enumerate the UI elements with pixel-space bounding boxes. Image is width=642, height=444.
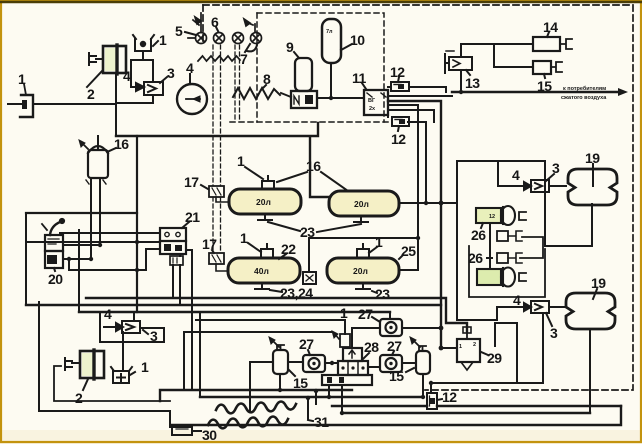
- reservoir 9 (condensation): [291, 58, 317, 108]
- risers to bottom buses: [186, 250, 200, 397]
- label 17 lower: [212, 250, 214, 253]
- svg-text:22: 22: [281, 241, 296, 257]
- link between accumulators: [489, 223, 491, 269]
- parking brake valve 28: [322, 348, 372, 385]
- wire reservoir 10 down / block 9 to valve 11: [317, 63, 364, 98]
- label 8: [261, 85, 266, 90]
- wire loop right of 29: [431, 323, 517, 393]
- svg-text:20л: 20л: [256, 197, 271, 207]
- label 1 (bottom unloader): [130, 372, 135, 375]
- air reservoir 20l (parking circuit): [327, 258, 399, 283]
- bottom bus y390: [160, 390, 352, 401]
- label 3 (top valve): [160, 77, 167, 83]
- accelerating valve 29: [457, 327, 480, 370]
- energy accumulator 26 (upper): [476, 206, 526, 225]
- label 2 (bottom): [83, 379, 88, 390]
- flexible hose 31 (upper): [216, 402, 296, 414]
- label 16 with leaders to both reservoirs: [277, 172, 348, 191]
- dashed lamp wires pair B: [235, 45, 240, 120]
- wire valve 3 lower drop: [431, 313, 543, 383]
- svg-text:2х: 2х: [369, 106, 376, 112]
- label 7: [245, 44, 257, 52]
- wires valve 3 upper: [498, 161, 566, 186]
- svg-text:4: 4: [512, 167, 520, 183]
- wire trunk into 29: [441, 347, 457, 349]
- svg-text:1: 1: [340, 305, 348, 321]
- svg-text:3: 3: [552, 160, 560, 176]
- supply line from dryer trunk to rear reservoir: [116, 123, 329, 197]
- wire 13 down to main air line: [460, 70, 462, 92]
- wires 27c to 28 and 15R: [368, 363, 416, 367]
- svg-text:16: 16: [306, 158, 321, 174]
- label 11: [362, 83, 366, 89]
- svg-text:1: 1: [240, 230, 248, 246]
- dashed lamp wires pair A: [213, 45, 221, 253]
- wire 13 up to 14/15: [461, 44, 533, 67]
- svg-text:25: 25: [401, 243, 416, 259]
- label 12 lower: [398, 126, 399, 131]
- air dryer 16: [79, 140, 108, 184]
- svg-text:к потребителям: к потребителям: [563, 85, 606, 92]
- wire feed to lower limit valve: [457, 307, 506, 320]
- svg-text:30: 30: [202, 427, 217, 443]
- valve 28 bottom ports: [329, 385, 342, 413]
- svg-text:1: 1: [459, 344, 462, 350]
- svg-text:6: 6: [211, 14, 219, 30]
- brake chamber 15 (right): [410, 337, 430, 374]
- wire valve3b feed: [133, 312, 135, 319]
- heater squiggle under lamps: [198, 56, 240, 61]
- wire bus y320 to hand valve feed: [196, 320, 345, 334]
- brake chamber 15 (left): [269, 337, 288, 374]
- long bus y305: [26, 304, 441, 306]
- quick release valve 27 b (upper right): [380, 319, 402, 336]
- label 21: [182, 222, 189, 228]
- lower 26 enclosure: [469, 246, 545, 297]
- svg-text:16: 16: [114, 136, 129, 152]
- svg-text:13: 13: [465, 75, 480, 91]
- label 12 upper: [398, 77, 399, 82]
- svg-text:4: 4: [186, 60, 194, 76]
- svg-text:12: 12: [442, 389, 457, 405]
- svg-text:1: 1: [237, 153, 245, 169]
- svg-text:14: 14: [543, 19, 558, 35]
- svg-text:ВГ: ВГ: [368, 98, 376, 104]
- slack adjuster (lower): [497, 253, 522, 263]
- svg-text:27: 27: [299, 336, 314, 352]
- air reservoir 20l (front circuit): [229, 189, 301, 214]
- wire bus y213: [26, 212, 137, 214]
- wire compressor output down: [115, 73, 117, 136]
- svg-text:26: 26: [468, 250, 483, 266]
- quick release valve 27 c: [380, 355, 402, 372]
- wire chamber 15L left: [250, 362, 273, 412]
- flexible hose 31 (lower): [208, 417, 288, 429]
- control lamps 5 6 7: [188, 13, 262, 44]
- pressure gauge 14: [533, 37, 560, 51]
- compressor 2 (top): [89, 45, 126, 74]
- svg-text:1: 1: [18, 71, 26, 87]
- label 1 (parking fitting): [369, 247, 377, 253]
- long bus y298: [86, 298, 467, 332]
- main air line with arrow to consumers: [452, 91, 618, 93]
- label 31: [308, 420, 313, 421]
- wire riser x137: [136, 136, 138, 312]
- svg-text:8: 8: [263, 71, 271, 87]
- wire from coupling to compressor drop: [33, 103, 116, 105]
- svg-text:12: 12: [390, 64, 405, 80]
- quick release valve 27 a: [303, 355, 325, 372]
- svg-text:1: 1: [375, 234, 383, 250]
- svg-text:28: 28: [364, 339, 379, 355]
- drain valve under reservoir: [258, 214, 272, 220]
- labels 23 24: [270, 290, 282, 292]
- inner dashed instrument panel boundary: [230, 13, 392, 122]
- svg-text:29: 29: [487, 350, 502, 366]
- label 17 upper: [201, 185, 208, 189]
- wire spring to block 9: [281, 93, 291, 97]
- right section enclosure wires: [457, 161, 545, 320]
- tyre inflation valve 13: [445, 51, 472, 73]
- label 1 (40l fitting): [248, 243, 261, 252]
- wire loop around valve3b: [100, 312, 164, 342]
- protection valve block 11: [364, 90, 388, 115]
- svg-text:15: 15: [389, 368, 404, 384]
- label 28: [363, 353, 369, 359]
- wire rear reservoir branch to drain 24: [309, 237, 418, 239]
- riser x79: [78, 230, 80, 312]
- label 15 (left chamber): [289, 370, 295, 376]
- reservoir fitting with drain 1: [262, 176, 274, 189]
- compressor 2 (bottom): [65, 350, 104, 379]
- dryer feed from trunk: [97, 136, 99, 150]
- spring 8 (regulator link): [233, 88, 280, 99]
- label 29: [481, 352, 488, 355]
- bottom-left enclosure wire: [39, 302, 170, 427]
- wires 27b: [352, 312, 441, 348]
- svg-text:7: 7: [240, 51, 248, 67]
- svg-text:19: 19: [585, 150, 600, 166]
- wire unloader to valve 3 both-side loop: [131, 57, 153, 87]
- hand brake valve 20: [42, 218, 65, 268]
- svg-text:10: 10: [350, 32, 365, 48]
- bottom bus y397: [200, 396, 423, 398]
- label 4: [189, 74, 191, 83]
- air reservoir 40l: [228, 258, 300, 283]
- svg-text:1: 1: [141, 359, 149, 375]
- wire rear reservoir right to trunk: [399, 202, 457, 204]
- label 2: [87, 71, 102, 87]
- reservoir 10 (7 litre): [322, 19, 341, 63]
- label 9: [294, 52, 299, 58]
- wire valve3b down to unloader: [122, 332, 124, 371]
- label 15 (right chamber): [406, 368, 414, 372]
- label 16 (dryer): [107, 148, 116, 152]
- unloader 1 (bottom): [111, 367, 132, 383]
- label 12 (bottom): [437, 399, 442, 400]
- svg-text:4: 4: [513, 292, 521, 308]
- svg-text:2: 2: [75, 390, 83, 406]
- svg-text:20л: 20л: [354, 199, 369, 209]
- svg-text:17: 17: [202, 236, 217, 252]
- label 3 (right lower): [546, 313, 552, 326]
- svg-text:5: 5: [175, 23, 183, 39]
- label 13: [466, 70, 470, 75]
- svg-text:31: 31: [314, 414, 329, 430]
- svg-text:1: 1: [159, 32, 167, 48]
- wire loop into 21: [69, 249, 160, 270]
- svg-text:сжатого воздуха: сжатого воздуха: [561, 95, 607, 101]
- svg-text:7л: 7л: [326, 29, 333, 35]
- svg-text:27: 27: [387, 338, 402, 354]
- fitting 1 (tow hose coupling, left border): [8, 84, 33, 117]
- label 1 (reservoir fitting): [245, 167, 263, 179]
- svg-text:4: 4: [104, 306, 112, 322]
- wire left riser: [25, 213, 27, 305]
- bottom bus y406 right: [332, 405, 427, 407]
- air reservoir 20l (rear circuit): [329, 191, 399, 216]
- svg-text:2: 2: [87, 86, 95, 102]
- wire bus y332: [184, 332, 332, 390]
- label 14: [547, 32, 549, 37]
- label 10: [341, 44, 352, 50]
- governor 4 (circle): [177, 84, 207, 114]
- outer dashed cab boundary: [203, 5, 633, 390]
- label 26 lower: [487, 257, 492, 259]
- svg-text:4: 4: [123, 68, 131, 84]
- chamber 15R bottom riser: [422, 374, 424, 397]
- label 19 lower: [593, 289, 597, 299]
- svg-text:40л: 40л: [254, 266, 269, 276]
- label 3 (right upper): [546, 174, 554, 181]
- label 5: [185, 32, 196, 35]
- slack adjuster (upper): [497, 231, 522, 241]
- wire bus into valve 21 upper: [60, 232, 160, 234]
- fitting on 40l: [261, 244, 273, 258]
- dryer outputs down: [91, 178, 100, 259]
- wire 19 lower down: [589, 329, 591, 413]
- pressure sensor 12 (upper): [391, 82, 409, 91]
- bottom right long buses: [342, 412, 590, 414]
- label 20: [54, 268, 55, 271]
- wire 19 upper down: [545, 204, 592, 246]
- svg-text:27: 27: [358, 306, 373, 322]
- svg-text:9: 9: [286, 39, 294, 55]
- label 23 (parking drain): [372, 291, 377, 293]
- drain under parking reservoir: [356, 283, 370, 289]
- label 15: [544, 74, 545, 78]
- spring brake chamber 19 (upper): [568, 169, 617, 205]
- label 26 upper: [481, 223, 483, 228]
- svg-text:11: 11: [352, 70, 367, 86]
- pressure regulator 1 (top, unloader): [133, 35, 154, 57]
- wire valve20 right links: [63, 245, 100, 259]
- svg-text:23: 23: [375, 286, 390, 302]
- wires valve 3 lower: [504, 306, 564, 308]
- svg-text:2: 2: [473, 342, 476, 348]
- compressor 2b suction line: [54, 366, 170, 401]
- wires from 21 down: [173, 254, 180, 305]
- drain cock 30: [172, 427, 201, 435]
- pressure drop sensor 17 (upper): [209, 186, 229, 202]
- svg-text:15: 15: [293, 375, 308, 391]
- svg-text:19: 19: [591, 275, 606, 291]
- hose risers: [308, 391, 316, 419]
- label 25: [399, 255, 403, 259]
- limit valve 3 (right upper) with arrow 4: [512, 180, 549, 192]
- energy accumulator 26 (lower): [477, 268, 526, 287]
- svg-text:12: 12: [489, 214, 495, 220]
- drain valve 24 on riser: [308, 238, 310, 272]
- label 1 (unloader): [153, 41, 158, 46]
- gauge 15: [533, 61, 551, 74]
- label 19 upper: [592, 164, 594, 186]
- label 22: [279, 254, 286, 259]
- svg-text:20л: 20л: [353, 266, 368, 276]
- valve 3 (bottom) with arrow 4: [104, 321, 140, 333]
- fitting above valve 28: [332, 331, 350, 347]
- pressure drop sensor 17 (lower): [209, 253, 228, 271]
- svg-text:12: 12: [391, 131, 406, 147]
- label 27 a: [308, 350, 310, 355]
- spring brake chamber 19 (lower): [566, 293, 615, 329]
- svg-text:3: 3: [550, 325, 558, 341]
- drain valve under 40l: [255, 283, 269, 289]
- svg-text:20: 20: [48, 271, 63, 287]
- label 27 c: [392, 351, 394, 355]
- wires 27a: [288, 362, 338, 363]
- label 23 between drains: [268, 222, 361, 232]
- limit valve 3 (right lower) with arrow 4: [512, 301, 549, 313]
- svg-text:17: 17: [184, 174, 199, 190]
- svg-text:3: 3: [167, 65, 175, 81]
- label 6: [216, 27, 218, 31]
- wire slack adjusters to right: [520, 237, 543, 258]
- brake valve 21 (two-section): [160, 228, 186, 265]
- fitting on parking reservoir: [357, 244, 369, 258]
- valve 3 (top) with arrow 4: [116, 82, 163, 103]
- wire chamber 15L bottom: [279, 374, 281, 390]
- wires from valve 11 to right: [388, 87, 446, 92]
- svg-text:21: 21: [185, 209, 200, 225]
- pressure sensor 12 (bottom): [427, 393, 437, 409]
- label 27 b: [372, 317, 380, 322]
- pressure sensor 12 (lower): [392, 117, 409, 126]
- drain valve under rear reservoir: [354, 216, 368, 222]
- wire bus into valve 21 lower: [26, 241, 160, 243]
- svg-text:26: 26: [471, 227, 486, 243]
- label 3 (bottom valve): [143, 330, 148, 334]
- long bus y312: [79, 311, 390, 313]
